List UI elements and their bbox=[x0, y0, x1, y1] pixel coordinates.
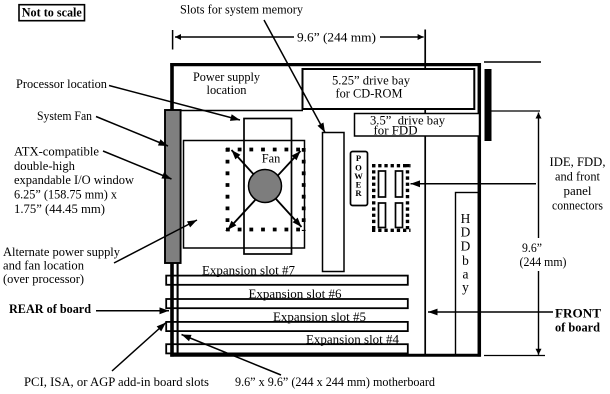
svg-text:Power supply: Power supply bbox=[193, 70, 261, 84]
5.25in drive bay box bbox=[303, 69, 475, 109]
svg-text:(244 mm): (244 mm) bbox=[520, 255, 567, 269]
leader arrow IDE connectors bbox=[411, 183, 537, 185]
svg-text:(over processor): (over processor) bbox=[3, 272, 84, 286]
svg-text:IDE, FDD,: IDE, FDD, bbox=[550, 155, 606, 169]
svg-text:location: location bbox=[207, 83, 248, 97]
svg-text:connectors: connectors bbox=[552, 199, 603, 213]
svg-text:6.25” (158.75 mm) x: 6.25” (158.75 mm) x bbox=[14, 188, 118, 202]
right dimension bottom extension line bbox=[484, 355, 545, 357]
processor area rectangle bbox=[184, 141, 305, 249]
svg-text:Not to scale: Not to scale bbox=[22, 6, 82, 20]
top dimension left tick bbox=[172, 30, 174, 50]
svg-text:9.6” x 9.6” (244 x 244 mm) mot: 9.6” x 9.6” (244 x 244 mm) motherboard bbox=[235, 375, 436, 389]
svg-text:Processor location: Processor location bbox=[16, 77, 108, 91]
right dimension upper extension line bbox=[486, 110, 540, 112]
svg-text:Fan: Fan bbox=[262, 152, 281, 166]
svg-text:panel: panel bbox=[564, 184, 593, 198]
svg-text:ATX-compatible: ATX-compatible bbox=[14, 145, 99, 159]
leader arrow to system fan bbox=[96, 117, 168, 147]
top dimension line left segment with left arrow bbox=[175, 36, 294, 38]
label: ATX-compatible I/O window (5 lines) bbox=[14, 145, 134, 216]
svg-text:for CD-ROM: for CD-ROM bbox=[336, 87, 403, 101]
label: IDE, FDD, and front panel connectors bbox=[550, 155, 606, 213]
svg-text:double-high: double-high bbox=[14, 159, 76, 173]
leader arrow FRONT bbox=[428, 311, 553, 313]
vertical separator line at x=425 (also right dimension tick) bbox=[424, 30, 426, 356]
leader arrow motherboard bbox=[182, 335, 282, 376]
black side bar right of drive bays bbox=[485, 69, 492, 141]
chassis outline bbox=[170, 63, 481, 66]
leader arrow PCI slots bbox=[112, 323, 166, 372]
expansion slot #5 bbox=[166, 322, 408, 331]
svg-text:and front: and front bbox=[555, 169, 601, 183]
svg-text:PCI, ISA, or AGP add-in board: PCI, ISA, or AGP add-in board slots bbox=[24, 375, 209, 389]
svg-text:Expansion slot #5: Expansion slot #5 bbox=[273, 310, 366, 324]
svg-text:5.25” drive bay: 5.25” drive bay bbox=[332, 74, 411, 88]
svg-text:of board: of board bbox=[555, 321, 600, 335]
leader arrow memory slots bbox=[264, 20, 325, 133]
svg-text:Slots for system memory: Slots for system memory bbox=[180, 3, 304, 17]
svg-text:R: R bbox=[355, 188, 362, 198]
expansion slot #7 bbox=[166, 276, 408, 285]
svg-text:Expansion slot #4: Expansion slot #4 bbox=[306, 333, 400, 347]
svg-text:Alternate power supply: Alternate power supply bbox=[3, 245, 121, 259]
leader arrow to I/O window bbox=[103, 151, 172, 179]
gray I/O window bar bbox=[165, 110, 181, 263]
chassis left edge (thick, over slots) bbox=[170, 63, 174, 357]
svg-text:D: D bbox=[461, 239, 471, 254]
processor rectangle (tall) bbox=[244, 119, 292, 255]
svg-text:FRONT: FRONT bbox=[555, 307, 602, 321]
expansion slot #6 bbox=[166, 299, 408, 308]
fan dotted square bbox=[226, 148, 306, 231]
fan cross arrow TL-BR bbox=[232, 150, 302, 227]
connector header pin rect top-left bbox=[379, 171, 386, 197]
svg-text:REAR of board: REAR of board bbox=[9, 302, 91, 316]
board left inner line bbox=[177, 264, 179, 355]
right dimension line upper segment with up arrow bbox=[538, 113, 540, 239]
svg-text:expandable I/O window: expandable I/O window bbox=[14, 173, 134, 187]
fan circle bbox=[249, 170, 282, 203]
POWER connector box bbox=[351, 152, 368, 206]
svg-text:for FDD: for FDD bbox=[374, 124, 418, 138]
svg-text:and fan location: and fan location bbox=[3, 259, 85, 273]
IDE/FDD connector dotted block bbox=[372, 164, 411, 232]
leader arrow REAR bbox=[96, 310, 169, 312]
connector header pin rect bottom-left bbox=[379, 203, 386, 228]
connector header pin rect bottom-right bbox=[396, 203, 403, 228]
svg-text:y: y bbox=[462, 280, 469, 295]
top dimension line right segment with right arrow bbox=[380, 36, 424, 38]
memory slots rectangle bbox=[323, 133, 345, 272]
svg-text:D: D bbox=[461, 225, 471, 240]
leader arrow to alternate location bbox=[114, 220, 197, 263]
expansion slot #4 bbox=[166, 344, 408, 353]
svg-text:9.6”: 9.6” bbox=[522, 241, 542, 255]
fan cross arrow TR-BL bbox=[228, 151, 301, 230]
label: Alternate power supply (3 lines) bbox=[3, 245, 121, 286]
svg-text:9.6” (244 mm): 9.6” (244 mm) bbox=[297, 31, 376, 45]
right dimension top extension line (board top) bbox=[484, 61, 541, 63]
HDD bay rectangle bbox=[456, 193, 479, 356]
leader arrow to processor bbox=[109, 86, 240, 121]
svg-text:Expansion slot #6: Expansion slot #6 bbox=[249, 287, 342, 301]
connector header pin rect top-right bbox=[396, 171, 403, 197]
"Not to scale" box bbox=[19, 5, 85, 21]
svg-text:1.75” (44.45 mm): 1.75” (44.45 mm) bbox=[14, 202, 105, 216]
right dimension line lower segment with down arrow bbox=[538, 271, 540, 355]
power supply area bottom line bbox=[173, 110, 303, 112]
3.5in drive bay box bbox=[355, 114, 480, 137]
svg-text:System Fan: System Fan bbox=[37, 109, 93, 123]
svg-text:Expansion slot #7: Expansion slot #7 bbox=[202, 264, 295, 278]
